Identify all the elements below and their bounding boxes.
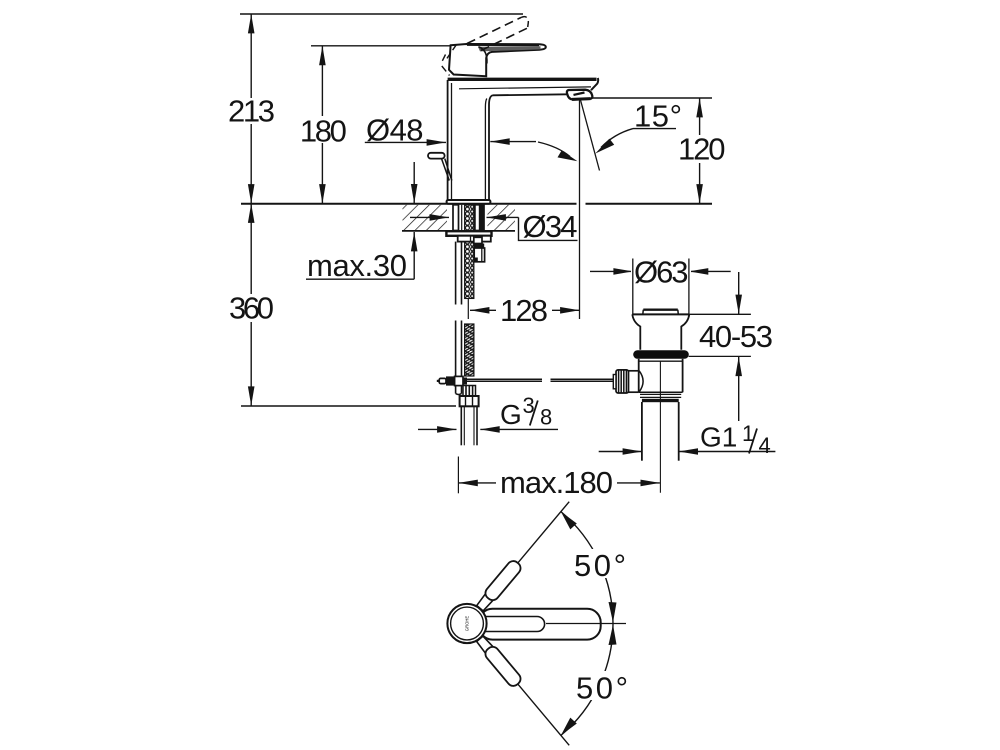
faucet body right wall [485,95,492,200]
svg-text:GROHE: GROHE [465,616,470,632]
faucet base flange [447,200,491,204]
svg-text:Ø63: Ø63 [634,254,689,289]
mounting nut tier2 [458,236,491,242]
svg-text:50°: 50° [576,671,628,706]
wire 180 reference line [311,45,450,47]
drain body [639,359,683,393]
faucet body left wall [448,80,452,200]
plan view: lower swivel diagonal [475,634,575,749]
dimension 360 [227,204,276,406]
shank threaded stud [465,205,474,299]
supply connector nut [460,396,479,406]
svg-text:360: 360 [229,291,274,326]
dimension 213 [227,14,277,204]
drain seal ring [633,350,689,359]
braided hose section [465,324,474,376]
plan view: lever at 0deg [479,609,601,640]
wire spout drip vertical line [579,100,581,319]
pull rod linkage [437,376,467,385]
drain body bottom step [639,392,683,397]
dimension D63 [590,254,731,314]
deck underside line [402,230,447,232]
dimension 180 [297,46,349,204]
mounting nut tier1 [446,231,491,236]
plan view: centerline [546,623,626,625]
drain rod housing [628,371,639,392]
faucet spout top edge [448,78,597,81]
drain knurled nut [616,370,629,393]
svg-text:Ø34: Ø34 [523,209,578,244]
left supply hose upper [456,242,462,305]
pull rod holder [474,237,485,261]
drain tailpipe [642,399,679,461]
dimension G3/8 [418,393,558,430]
wire top reference line (213 top) [240,13,523,15]
drain pull knob [428,153,452,181]
plan view: body circle [447,604,486,643]
deck hatching left [403,205,448,231]
dimension D48 [365,113,578,162]
dimension 40-53 [688,272,773,421]
left supply hose lower [456,321,462,395]
handle raised dashed outline [442,17,529,76]
svg-text:max.30: max.30 [307,248,407,283]
dimension D34 [410,209,578,244]
svg-text:4: 4 [759,433,771,458]
shank right sleeve [475,205,484,231]
handle base and blade [449,44,546,76]
faucet spout underside [493,94,568,95]
svg-text:max.180: max.180 [500,465,613,500]
svg-text:40-53: 40-53 [699,319,773,354]
dimension max.180 [458,457,660,500]
svg-text:213: 213 [228,93,275,128]
wire bottom reference line (360 bottom / supply level) [241,405,456,407]
svg-text:128: 128 [500,293,548,328]
horizontal pop-up rod [467,379,614,381]
dimension 128 [468,293,579,328]
drain rod stub [613,375,616,389]
plan view: 50deg labels [572,548,630,706]
wire 120 top reference line [584,97,712,99]
svg-text:50°: 50° [574,548,626,583]
svg-text:120: 120 [678,132,726,167]
faucet aerator nozzle [567,90,593,100]
faucet spout chamfer line [459,87,591,89]
faucet spout tip face [591,78,598,90]
svg-text:8: 8 [540,405,552,430]
wire 15deg slanted line [581,100,600,171]
svg-text:G1: G1 [700,422,737,453]
shank left sleeve [453,205,462,231]
plan view: upper swivel diagonal [475,497,575,612]
supply tube G3/8 [461,406,477,445]
deck hatching right [488,205,516,231]
dimension 120 [676,98,727,204]
threaded nipple below hose [463,386,476,397]
svg-text:G: G [500,399,522,430]
drain flange [632,314,689,349]
svg-text:180: 180 [300,113,347,148]
dimension G1 1/4 [599,421,776,458]
dimension 15deg [595,98,682,153]
dimension max.30 [306,162,414,283]
wire deck reference line [241,203,577,205]
drain pop-up waste: center line [659,362,661,493]
plan view: 50deg arc [561,512,617,736]
drain plug cap [643,310,679,315]
